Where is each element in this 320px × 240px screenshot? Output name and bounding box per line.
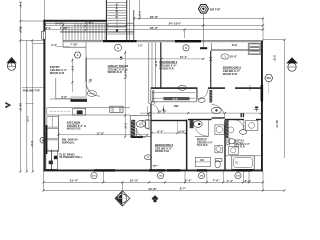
svg-text:16R: 16R [174, 104, 179, 108]
svg-text:7’-8”: 7’-8” [137, 11, 141, 18]
svg-text:WOOD FLR: WOOD FLR [159, 66, 173, 70]
svg-text:10’-10”: 10’-10” [158, 110, 168, 114]
svg-text:TILE FLR: TILE FLR [197, 144, 208, 147]
svg-text:7’-0”: 7’-0” [213, 179, 220, 183]
svg-text:R+S: R+S [173, 98, 178, 101]
svg-text:DISPOSAL: DISPOSAL [62, 141, 75, 144]
svg-text:BEDROOM 3: BEDROOM 3 [223, 65, 242, 69]
svg-text:9’-6”: 9’-6” [30, 141, 34, 148]
svg-text:BEDROOM 1: BEDROOM 1 [159, 60, 178, 64]
svg-text:TILE FLR: TILE FLR [234, 145, 245, 148]
svg-text:BEDROOM 2: BEDROOM 2 [155, 143, 174, 147]
svg-text:21’-4”: 21’-4” [70, 179, 79, 183]
svg-text:M: M [42, 139, 44, 142]
svg-text:LIN: LIN [200, 159, 204, 162]
svg-text:2’-0”: 2’-0” [51, 43, 58, 47]
svg-text:RAILING TYP: RAILING TYP [23, 89, 40, 93]
svg-text:9’-0”: 9’-0” [154, 61, 158, 68]
svg-text:10’-0”: 10’-0” [230, 54, 238, 58]
svg-text:7’-10”: 7’-10” [60, 26, 69, 30]
svg-text:WOOD FLR: WOOD FLR [50, 71, 64, 75]
svg-text:7’-6”: 7’-6” [26, 116, 30, 123]
svg-text:WOOD FLR: WOOD FLR [108, 70, 122, 74]
svg-text:32’-2”: 32’-2” [150, 26, 159, 30]
svg-text:WOOD FLR: WOOD FLR [223, 72, 237, 76]
svg-text:16’-0”: 16’-0” [123, 70, 127, 78]
svg-text:WOOD FLR: WOOD FLR [67, 127, 81, 130]
svg-text:34’-10½”: 34’-10½” [169, 22, 182, 26]
svg-text:KITCHEN: KITCHEN [67, 120, 80, 124]
svg-text:5’-4”: 5’-4” [227, 179, 234, 183]
svg-text:7’-4”: 7’-4” [185, 179, 192, 183]
svg-text:2’-4”: 2’-4” [46, 26, 53, 30]
svg-text:IN FINISHED WALL: IN FINISHED WALL [60, 156, 83, 159]
svg-text:P: P [116, 15, 118, 19]
svg-text:15’-3”: 15’-3” [130, 179, 139, 183]
svg-text:1’-0”: 1’-0” [138, 44, 144, 47]
svg-text:BR TYP: BR TYP [210, 8, 221, 12]
svg-text:9’-6”: 9’-6” [61, 95, 68, 99]
svg-text:1B: 1B [89, 79, 92, 82]
svg-text:3’-6”: 3’-6” [272, 55, 276, 62]
svg-text:5’-2”: 5’-2” [245, 179, 252, 183]
svg-text:WH: WH [267, 77, 271, 80]
svg-text:16’-8”: 16’-8” [19, 103, 23, 112]
svg-text:40’-8”: 40’-8” [148, 187, 157, 191]
svg-text:R+S: R+S [232, 43, 237, 47]
svg-text:8’-4”: 8’-4” [157, 129, 164, 133]
svg-text:6’-0”: 6’-0” [71, 66, 74, 72]
svg-text:3’-6”: 3’-6” [19, 1, 23, 8]
svg-text:10’-4”: 10’-4” [180, 55, 188, 59]
svg-text:26’-8”: 26’-8” [150, 15, 159, 19]
svg-text:A: A [117, 47, 119, 50]
svg-text:7’-10”: 7’-10” [70, 43, 78, 47]
svg-text:6’-8”: 6’-8” [179, 129, 186, 133]
svg-text:WOOD FLR: WOOD FLR [155, 149, 169, 153]
svg-text:9’-0”: 9’-0” [19, 27, 23, 34]
svg-text:17’-6”: 17’-6” [97, 131, 105, 135]
svg-text:31’-6”: 31’-6” [275, 120, 279, 129]
svg-text:8’-7”: 8’-7” [180, 187, 187, 191]
